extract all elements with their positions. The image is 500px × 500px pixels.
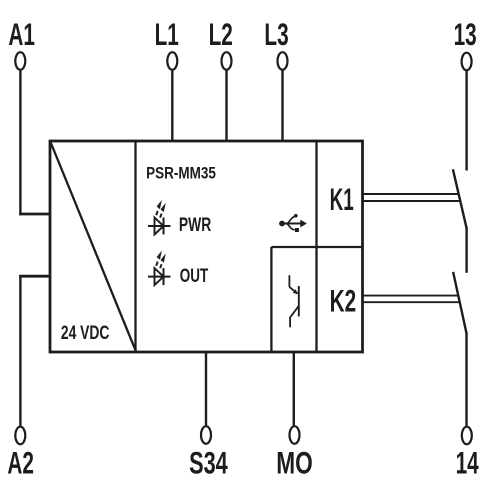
power supply diagonal <box>51 142 137 352</box>
wire A2 vertical <box>19 275 21 427</box>
terminal MO <box>290 426 300 444</box>
LED OUT symbol <box>148 251 171 286</box>
terminal L3 <box>278 52 288 70</box>
wire L2 <box>225 70 227 141</box>
USB icon <box>279 214 307 232</box>
svg-text:PSR-MM35: PSR-MM35 <box>146 164 216 183</box>
contact K1 (NO) arm <box>453 169 467 228</box>
wire 13 down to contact K1 <box>465 71 467 171</box>
svg-text:14: 14 <box>456 445 479 480</box>
power supply section divider <box>134 141 136 352</box>
svg-text:L3: L3 <box>264 17 288 52</box>
wire S34 <box>205 352 207 427</box>
terminal A2 <box>15 427 25 445</box>
wire between contacts <box>465 227 467 273</box>
wire contact K2 to 14 <box>465 332 467 427</box>
svg-text:K1: K1 <box>330 181 354 217</box>
svg-text:13: 13 <box>454 17 477 52</box>
K1/K2 horizontal divider <box>271 246 362 248</box>
svg-text:PWR: PWR <box>179 214 211 236</box>
K2 mechanical linkage double line <box>363 295 458 297</box>
wire A2 stub into box <box>19 275 50 278</box>
terminal 14 <box>462 427 472 445</box>
semiconductor output symbol <box>289 275 298 327</box>
semiconductor output box left edge <box>270 247 272 352</box>
K1 relay coil box divider <box>315 141 317 352</box>
terminal 13 <box>462 53 472 71</box>
LED PWR symbol <box>148 200 171 235</box>
terminal L2 <box>222 52 232 70</box>
wire L3 <box>281 70 283 141</box>
terminal L1 <box>167 52 177 70</box>
relay module U1 outer box <box>50 141 363 352</box>
wire A1 stub into box <box>19 213 50 216</box>
svg-text:24 VDC: 24 VDC <box>61 322 110 344</box>
svg-text:K2: K2 <box>330 283 357 318</box>
terminal A1 <box>15 52 25 70</box>
svg-text:OUT: OUT <box>180 266 208 287</box>
wire A1 vertical <box>19 70 21 215</box>
K1 mechanical linkage double line <box>363 193 459 195</box>
wire L1 <box>171 70 173 141</box>
terminal S34 <box>201 426 211 444</box>
svg-text:MO: MO <box>276 445 313 481</box>
svg-text:L1: L1 <box>155 17 179 52</box>
contact K2 (NO) arm <box>453 272 466 333</box>
svg-text:A2: A2 <box>7 445 34 480</box>
svg-text:A1: A1 <box>8 17 35 52</box>
wire MO <box>293 352 295 427</box>
svg-text:S34: S34 <box>189 445 228 480</box>
svg-text:L2: L2 <box>209 17 233 52</box>
